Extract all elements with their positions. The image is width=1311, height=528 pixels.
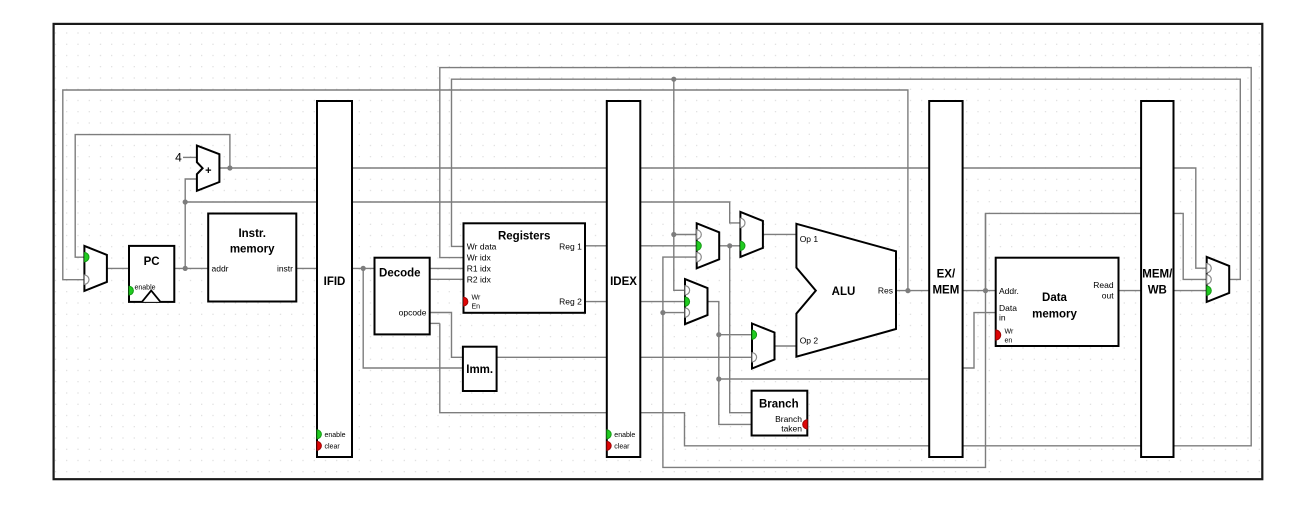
- svg-text:Data: Data: [1042, 292, 1068, 304]
- mux M2 (forward mux A, op1 stage): [697, 223, 720, 268]
- wire: Decode opcode to Imm in1: [430, 313, 463, 358]
- wire: Reg 2 row through IDEX to mux C in2: [585, 301, 685, 303]
- svg-text:PC: PC: [144, 256, 160, 268]
- svg-text:Wr: Wr: [472, 295, 481, 302]
- memory block: Instr. memory: [208, 214, 296, 302]
- wire: MEM-stage forwarding (EX/MEM out column to mux A in3 / mux C in3): [663, 213, 986, 467]
- block Registers: [464, 223, 586, 312]
- svg-text:4: 4: [175, 150, 182, 164]
- wire: PC mux out to PC: [107, 267, 129, 269]
- svg-text:WB: WB: [1148, 285, 1167, 297]
- register PC: [129, 246, 174, 302]
- wire: MEM/WB ALU result to mux E in2: [1174, 213, 1207, 279]
- svg-text:Reg 2: Reg 2: [559, 297, 582, 307]
- svg-text:memory: memory: [230, 244, 275, 256]
- memory block: Data memory: [996, 258, 1119, 346]
- ALU: [796, 224, 896, 357]
- node instr to Imm split: [361, 266, 366, 271]
- svg-text:IDEX: IDEX: [610, 276, 637, 288]
- svg-text:opcode: opcode: [399, 307, 427, 317]
- svg-text:Reg 1: Reg 1: [559, 241, 582, 251]
- wire: Reg 1 row through IDEX to mux A in2: [585, 245, 697, 247]
- svg-text:Op 2: Op 2: [800, 336, 819, 346]
- wire: Data memory Read out to MEM/WB: [1119, 290, 1142, 292]
- wire: Decode R2 idx to Registers: [430, 278, 464, 280]
- node adder out split: [227, 165, 232, 170]
- svg-text:out: out: [1102, 291, 1114, 301]
- mux M5 (op2 source mux D): [752, 324, 775, 369]
- node mux C net split at EX/MEM store data: [716, 376, 721, 381]
- node MEM forwarding split at mux C in3: [660, 310, 665, 315]
- svg-text:Read: Read: [1093, 280, 1114, 290]
- adder PC+4: [175, 146, 219, 191]
- svg-text:En: En: [472, 304, 481, 311]
- svg-text:clear: clear: [614, 443, 630, 450]
- mux M1 (PC source mux): [84, 246, 107, 291]
- wire: mux D out to ALU Op 2: [775, 345, 797, 347]
- svg-text:en: en: [1005, 337, 1013, 344]
- wire: PC+4 feedback (adder out > row 134.6 > PC mux in1): [75, 135, 230, 258]
- svg-text:memory: memory: [1032, 308, 1077, 320]
- wire: adder in2 from PC column: [185, 179, 197, 268]
- svg-text:Wr data: Wr data: [467, 241, 497, 251]
- svg-text:IFID: IFID: [324, 276, 346, 288]
- svg-text:MEM: MEM: [932, 285, 959, 297]
- svg-text:Res: Res: [878, 285, 893, 295]
- node PC column split: [183, 199, 188, 271]
- wire: mux C out down to mux D in1, EX/MEM store data, Branch in2: [708, 302, 930, 425]
- node mux C net split at mux D in1: [716, 332, 721, 337]
- svg-text:enable: enable: [135, 285, 156, 292]
- block Decode: [375, 258, 430, 335]
- pipeline register IFID: [317, 101, 352, 457]
- svg-text:MEM/: MEM/: [1142, 269, 1173, 281]
- pipeline register EX/MEM: [929, 101, 962, 457]
- svg-text:ALU: ALU: [832, 286, 856, 298]
- pipeline register MEM/WB: [1141, 101, 1173, 457]
- svg-text:+: +: [205, 165, 211, 177]
- border frame: [54, 24, 1263, 479]
- svg-text:R2 idx: R2 idx: [467, 274, 492, 284]
- svg-text:Registers: Registers: [498, 231, 550, 243]
- wire: Decode ctrl out stub: [430, 322, 440, 324]
- svg-text:enable: enable: [325, 432, 346, 439]
- wire: ALU result feedback (junction > top row 90 > PC mux in2): [63, 90, 908, 291]
- svg-text:Imm.: Imm.: [466, 364, 493, 376]
- svg-text:clear: clear: [325, 443, 341, 450]
- svg-text:Addr.: Addr.: [999, 286, 1019, 296]
- wire: PC value row 202 to mux B in1: [185, 202, 740, 223]
- mux M6 (write-back source mux E): [1207, 257, 1230, 302]
- node mux A out split: [727, 243, 732, 248]
- wire: PC+4 main bus row 168 (adder > IFID > IDEX > EX/MEM > MEM/WB > mux E in1): [219, 168, 1206, 268]
- wire: dest-reg-index loop (Decode ctrl > IDEX > around right > Registers Wr idx): [440, 68, 1251, 446]
- node ALU result split: [905, 288, 910, 293]
- node EX/MEM result split: [983, 288, 988, 293]
- wire: instr out to IFID: [296, 267, 317, 269]
- wire: Decode R1 idx to Registers: [430, 267, 464, 269]
- svg-text:enable: enable: [614, 432, 635, 439]
- svg-text:in: in: [999, 313, 1006, 323]
- svg-text:Data: Data: [999, 303, 1017, 313]
- grid dot background: [55, 25, 1262, 478]
- wire: mux A out to mux B in2 and down to Branch in1: [719, 246, 751, 413]
- node WB net top split: [671, 77, 676, 82]
- wire: Imm out through IDEX to mux D in2: [497, 356, 752, 358]
- wire: IFID instr to Decode with branch to Imm in2: [352, 268, 463, 368]
- wire: EX/MEM store data to Data memory Data in: [963, 313, 996, 368]
- wire: write-back result loop (mux E out > top > Wr data + forwarding): [452, 79, 1241, 279]
- svg-text:Decode: Decode: [379, 268, 421, 280]
- svg-text:EX/: EX/: [937, 269, 956, 281]
- wire: PC out to instruction memory addr: [174, 267, 208, 269]
- svg-text:R1 idx: R1 idx: [467, 263, 492, 273]
- mux M3 (op1 source mux B): [740, 212, 763, 257]
- svg-text:instr: instr: [277, 263, 293, 273]
- svg-text:taken: taken: [781, 424, 802, 434]
- wire: MEM/WB read data to mux E in3: [1174, 290, 1207, 292]
- wire: constant 4 stub into adder: [183, 156, 197, 158]
- svg-text:Wr idx: Wr idx: [467, 253, 492, 263]
- wire: EX/MEM ALU result to Data memory Addr and up to MEM/WB: [963, 213, 1142, 290]
- svg-text:addr: addr: [212, 263, 229, 273]
- wire: mux B out to ALU Op 1: [763, 233, 797, 235]
- svg-text:Op 1: Op 1: [800, 234, 819, 244]
- block Branch: [752, 391, 808, 436]
- svg-text:Instr.: Instr.: [238, 228, 265, 240]
- block Imm.: [463, 347, 497, 391]
- svg-text:Branch: Branch: [759, 399, 799, 411]
- wire: ALU Res to EX/MEM: [896, 290, 929, 292]
- node WB forwarding split at mux A in1: [671, 232, 676, 237]
- pipeline register IDEX: [607, 101, 641, 457]
- svg-text:Wr: Wr: [1005, 328, 1014, 335]
- mux M4 (forward mux C, op2 stage): [685, 279, 708, 324]
- wire: WB forwarding drop to mux A in1 and mux C in1: [674, 79, 697, 290]
